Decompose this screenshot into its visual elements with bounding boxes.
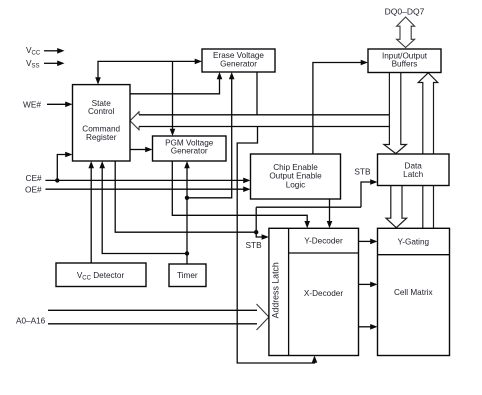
wire STB rail from Chip Enable Logic bottom (329, 199, 331, 222)
box Chip Enable Output Enable Logic (251, 154, 341, 199)
box PGM Voltage Generator (153, 136, 227, 161)
node CE# junction (55, 178, 59, 182)
wire State Control top to Erase Voltage Generator (98, 61, 196, 78)
wire State Control right to Erase Voltage Generator bottom (130, 79, 220, 94)
wire X-Decoder to Cell Matrix lower (359, 326, 372, 328)
wire VCC arrow (44, 50, 58, 52)
hollow arrow Input/Output Buffers down to Data Latch (384, 73, 407, 154)
wire CE# branch to State Control left (57, 155, 66, 181)
box Input/Output Buffers (368, 49, 441, 73)
svg-text:X-Decoder: X-Decoder (304, 289, 343, 298)
svg-text:Address Latch: Address Latch (271, 262, 281, 318)
wire State Control bottom to STB node (115, 161, 256, 232)
svg-text:STB: STB (354, 167, 371, 177)
hollow double arrow DQ0-DQ7 (397, 17, 415, 48)
wire WE# arrow (47, 103, 67, 105)
wire VSS arrow (44, 62, 58, 64)
svg-text:Generator: Generator (220, 60, 257, 69)
node Timer-StateControl junction (185, 251, 189, 255)
svg-text:Control: Control (88, 107, 115, 116)
svg-text:A0–A16: A0–A16 (16, 317, 46, 326)
node STB junction (254, 230, 258, 234)
svg-text:CE#: CE# (26, 173, 43, 183)
box Address Latch with Y-Decoder and X-Decoder (269, 228, 359, 355)
wire Timer to PGM Voltage Generator (186, 167, 188, 264)
box Data Latch (378, 154, 450, 186)
wire Y-Decoder to Y-Gating (359, 240, 372, 242)
svg-text:Logic: Logic (286, 180, 306, 189)
wire data bus line 2 (139, 126, 389, 128)
box Timer (169, 264, 206, 287)
wire data bus branch down to X-Decoder bottom (237, 127, 314, 364)
svg-text:Latch: Latch (403, 170, 423, 179)
wire OE# line (45, 188, 244, 190)
wire Chip Enable Logic top to Input/Output Buffers left (313, 63, 362, 155)
hollow arrow Data Latch down to Y-Gating (386, 186, 407, 228)
box VCC Detector (56, 263, 146, 287)
open arrowhead A0-A16 bus into Address Latch (257, 304, 269, 330)
svg-text:Timer: Timer (177, 271, 198, 280)
open arrowhead into State Control right (130, 111, 140, 130)
divider Y-Gating row (378, 254, 450, 256)
wire State Control right to PGM Voltage Generator (130, 149, 146, 151)
svg-text:DQ0–DQ7: DQ0–DQ7 (385, 7, 425, 17)
wire A0-A16 bus lines (48, 310, 257, 324)
node Timer-EraseVG junction (185, 196, 189, 200)
svg-text:OE#: OE# (25, 184, 42, 194)
divider Y-Decoder row (289, 252, 359, 254)
wire X-Decoder to Cell Matrix upper (359, 283, 372, 285)
wire Erase Voltage Generator bottom to data bus line (256, 72, 258, 115)
svg-text:Generator: Generator (171, 147, 208, 156)
wire CE# line (45, 179, 244, 181)
box State Control / Command Register (73, 85, 131, 161)
box Erase Voltage Generator (202, 49, 275, 72)
wire VCC Detector to State Control bottom (90, 167, 92, 263)
svg-text:Cell Matrix: Cell Matrix (394, 288, 433, 297)
hollow arrow Y-Gating up to Input/Output Buffers (418, 73, 438, 229)
svg-text:STB: STB (246, 240, 263, 250)
svg-text:WE#: WE# (23, 100, 41, 110)
svg-text:Y-Decoder: Y-Decoder (304, 237, 343, 246)
wire PGM Voltage Generator bottom to Y-Decoder top (172, 161, 307, 222)
divider Address Latch column (288, 228, 290, 355)
wire data bus line 1 (139, 114, 389, 116)
wire Erase Voltage Generator bottom to Timer node (187, 79, 232, 198)
svg-text:Y-Gating: Y-Gating (398, 237, 430, 246)
wire top rail down to PGM Voltage Generator top (172, 61, 174, 129)
svg-text:Register: Register (86, 133, 117, 142)
wire Timer to State Control bottom (102, 167, 187, 254)
svg-text:Buffers: Buffers (392, 60, 418, 69)
box Y-Gating / Cell Matrix (378, 228, 450, 355)
